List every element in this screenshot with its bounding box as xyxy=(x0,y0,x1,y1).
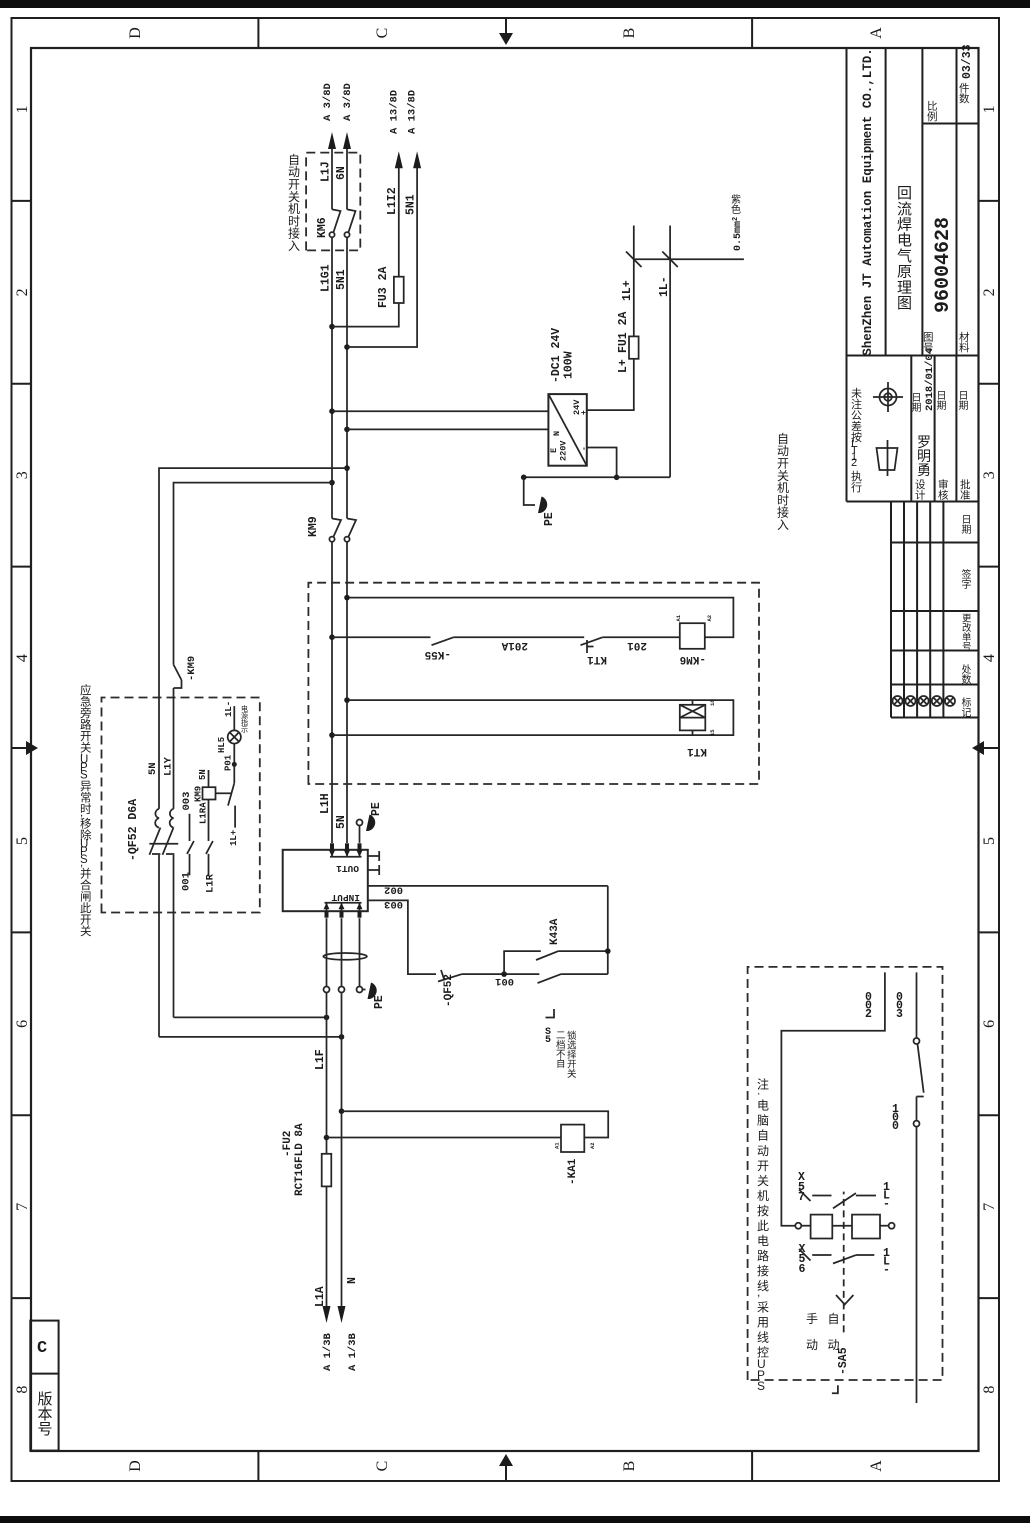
svg-text:L1RA: L1RA xyxy=(199,802,209,824)
wire 003 from UPS xyxy=(368,900,436,974)
UPS unused pin stubs bottom xyxy=(368,851,379,875)
wire KM6 rung upper xyxy=(332,636,431,638)
svg-text:SPU控线用采,线接路电此按机关开动自脑电:注: SPU控线用采,线接路电此按机关开动自脑电:注 xyxy=(757,1076,772,1393)
connector body X57 xyxy=(811,1215,833,1239)
svg-text:号单改更: 号单改更 xyxy=(962,613,972,653)
wire tap L1 to FU3 xyxy=(332,303,399,327)
contactor contact KM6 pole N xyxy=(344,232,349,237)
wire 6N out xyxy=(346,144,348,209)
svg-text:1: 1 xyxy=(14,105,31,113)
lamp branch contact blade xyxy=(228,783,235,828)
revision box 版本号 C xyxy=(30,1321,58,1451)
dashed box emergency bypass QF52 xyxy=(102,698,260,913)
relay contact -K55 xyxy=(432,637,454,645)
svg-text:-DC1 24V: -DC1 24V xyxy=(550,328,563,383)
svg-text:入接时机关开动自: 入接时机关开动自 xyxy=(288,153,300,253)
svg-text:字签: 字签 xyxy=(962,568,972,591)
svg-text:6: 6 xyxy=(981,1020,998,1028)
selector switch SA5 mechanical dashed link xyxy=(843,1192,845,1333)
svg-text:色紫: 色紫 xyxy=(731,194,741,216)
junction N drop xyxy=(339,1034,345,1040)
junction rail N KT1 rung xyxy=(344,697,350,703)
svg-text:D: D xyxy=(127,1460,144,1472)
centering mark left xyxy=(505,1460,507,1481)
terminal circle PE out xyxy=(357,820,363,826)
junction PE tap xyxy=(521,475,527,481)
svg-text:100W: 100W xyxy=(563,351,576,379)
svg-text:P01: P01 xyxy=(224,754,234,771)
fuse FU1 xyxy=(629,336,639,358)
title block middle section rows xyxy=(911,356,956,502)
svg-text:RCT16FLD 8A: RCT16FLD 8A xyxy=(294,1123,306,1196)
wire PE branch from DC1 xyxy=(524,477,535,505)
svg-text:ShenZhen JT Automation Equipme: ShenZhen JT Automation Equipment CO.,LTD… xyxy=(861,48,875,356)
svg-text:关开此闸合并,SPU除移,时常异SPU,关开路旁急应: 关开此闸合并,SPU除移,时常异SPU,关开路旁急应 xyxy=(80,683,92,938)
svg-text:L1R: L1R xyxy=(205,873,217,893)
svg-text:-QF52: -QF52 xyxy=(443,974,455,1007)
svg-text:7: 7 xyxy=(14,1203,31,1211)
junction on rail L1 for DC1 xyxy=(329,408,335,414)
svg-text:料材: 料材 xyxy=(959,331,970,355)
contactor contact -KM9 in bypass xyxy=(174,665,182,698)
svg-text:KM9: KM9 xyxy=(194,786,204,802)
junction KA1 tap N xyxy=(339,1108,345,1114)
svg-text:A2: A2 xyxy=(706,615,713,622)
junction lamp branch xyxy=(232,762,237,767)
aux line L1R with KM9 coil square xyxy=(206,770,213,875)
contactor contact KM6 pole L xyxy=(329,232,334,237)
wire rail L1 after KM9 xyxy=(331,237,333,518)
wire KA1 coil top xyxy=(327,1137,562,1139)
svg-text:1L-: 1L- xyxy=(224,701,234,717)
breaker QF52 mechanical tie xyxy=(149,843,178,845)
arrow to A 3/8D line N xyxy=(343,132,351,149)
wire L1F feed xyxy=(326,993,328,1154)
svg-text:5: 5 xyxy=(14,837,31,845)
relay contact K43A xyxy=(536,951,558,960)
svg-text:B: B xyxy=(621,1461,638,1472)
coil square KM9 xyxy=(203,787,216,799)
aux contact -QF52 near S5 xyxy=(438,970,462,982)
junction on rail L1 for FU3 branch xyxy=(329,324,335,330)
third angle projection symbol cone xyxy=(877,440,898,476)
svg-text:001: 001 xyxy=(892,1103,900,1133)
wire UPS PE out xyxy=(359,826,361,843)
UPS INPUT bracket and arrows xyxy=(325,903,362,912)
svg-text:E: E xyxy=(549,448,559,453)
svg-text:C: C xyxy=(374,1461,391,1472)
terminal circle connector top xyxy=(795,1223,801,1229)
svg-text:A: A xyxy=(868,27,885,39)
timer coil KT1 xyxy=(680,705,706,731)
svg-text:PE: PE xyxy=(370,802,383,816)
wire rail N after KM9 xyxy=(346,237,348,518)
svg-text:例比: 例比 xyxy=(927,100,938,124)
svg-text:A 13/8D: A 13/8D xyxy=(389,90,401,134)
earth symbol PE at DC1 xyxy=(538,497,547,514)
coil -KM6 xyxy=(680,623,705,649)
svg-text:N: N xyxy=(552,431,562,436)
earth symbol PE at UPS out xyxy=(366,815,375,832)
svg-text:L1H: L1H xyxy=(319,793,332,814)
svg-text:号本版: 号本版 xyxy=(38,1391,53,1438)
coil KT1 stubs xyxy=(692,700,694,735)
wire UPS input N xyxy=(341,918,343,986)
slash mark on 1L- xyxy=(662,252,678,268)
dashed box KM6 contacts 自动开关机时接入 xyxy=(306,153,360,251)
junction KA1 tap L xyxy=(324,1135,330,1141)
svg-text:2: 2 xyxy=(14,288,31,296)
svg-text:L1Y: L1Y xyxy=(163,756,175,776)
slash mark on 1L+ xyxy=(626,252,642,268)
svg-text:KT1: KT1 xyxy=(587,653,607,665)
svg-text:5N1: 5N1 xyxy=(335,269,348,290)
switch contact S5 xyxy=(538,974,608,983)
wire 001 left xyxy=(916,1097,918,1121)
wire bypass L riser xyxy=(174,483,333,665)
junction on rail N for 5N1 branch xyxy=(344,344,350,350)
wire 002 from UPS xyxy=(368,885,608,887)
svg-text:3: 3 xyxy=(981,471,998,479)
svg-text:002: 002 xyxy=(384,884,403,896)
junction tie xyxy=(605,948,611,954)
svg-text:15: 15 xyxy=(709,729,716,736)
svg-text:L1F: L1F xyxy=(314,1049,327,1070)
revision mark symbols xyxy=(893,696,956,706)
svg-text:1L+: 1L+ xyxy=(621,280,634,301)
svg-text:自不档二: 自不档二 xyxy=(556,1030,566,1070)
scan artifact: black bar bottom xyxy=(0,1516,1030,1523)
wire FU3 to arrow L1I2 xyxy=(398,163,400,277)
arrow to A 3/8D line L xyxy=(328,132,336,149)
svg-text:数处: 数处 xyxy=(962,664,972,686)
svg-text:记标: 记标 xyxy=(962,697,972,719)
terminal circle 001 xyxy=(914,1121,920,1127)
centering mark top xyxy=(12,747,33,749)
svg-text:INPUT: INPUT xyxy=(331,892,360,903)
svg-text:5N: 5N xyxy=(198,769,208,780)
svg-text:计设: 计设 xyxy=(915,479,926,502)
svg-text:勇明罗: 勇明罗 xyxy=(917,434,931,478)
svg-text:-L1: -L1 xyxy=(883,1181,891,1211)
svg-text:示指源电: 示指源电 xyxy=(241,704,248,734)
mechanical link square to lamp contact xyxy=(216,792,232,794)
svg-text:001: 001 xyxy=(181,872,193,891)
terminal circle connector bottom xyxy=(889,1223,895,1229)
wire K55 to KT1 contact xyxy=(454,636,584,638)
wire K43A branch top xyxy=(504,951,541,974)
zone column numbers top xyxy=(14,105,31,1393)
revision strip grid xyxy=(891,502,979,718)
junction rail L1 to KM6 rung xyxy=(329,634,335,640)
junction rail L1 to KT1 rung xyxy=(329,732,335,738)
svg-text:A1: A1 xyxy=(675,614,682,621)
UPS OUT bracket and arrows xyxy=(330,850,362,857)
svg-text:-QF52 D6A: -QF52 D6A xyxy=(127,799,140,861)
breaker QF52 pole L thermal hump xyxy=(170,809,174,828)
svg-text:期日: 期日 xyxy=(959,391,969,412)
wire bypass N riser xyxy=(159,468,347,809)
svg-text:D: D xyxy=(127,27,144,39)
breaker QF52 pole N blade xyxy=(149,828,160,913)
svg-text:5N: 5N xyxy=(147,762,159,775)
centering mark right xyxy=(505,18,507,39)
power supply DC1 box xyxy=(548,394,586,466)
wire DC1 minus output xyxy=(587,448,617,478)
wire 001 vertical xyxy=(462,973,539,975)
relay coil -KA1 xyxy=(561,1125,584,1152)
svg-text:PE: PE xyxy=(543,512,556,526)
wire rail N main xyxy=(346,542,348,843)
wire L1J out xyxy=(331,144,333,209)
breaker QF52 pole L blade xyxy=(163,828,175,913)
svg-text:入接时机关开动自: 入接时机关开动自 xyxy=(777,432,789,532)
terminal circle input PE xyxy=(357,987,363,993)
svg-text:75X: 75X xyxy=(798,1171,808,1204)
title block right section rows xyxy=(886,49,979,356)
connector pin column X57 xyxy=(799,1190,876,1209)
svg-text:OUT1: OUT1 xyxy=(336,863,359,874)
arrow to A 13/8D line L1I2 xyxy=(395,151,403,168)
dashed box computer auto power wiring xyxy=(748,967,943,1380)
arrow A 1/3B line N xyxy=(338,1306,346,1323)
svg-text:8: 8 xyxy=(981,1386,998,1394)
svg-text:003: 003 xyxy=(181,792,193,811)
junction on rail N for DC1 xyxy=(344,427,350,433)
svg-text:2: 2 xyxy=(981,288,998,296)
svg-text:KM9: KM9 xyxy=(307,516,320,537)
svg-text:L1J: L1J xyxy=(320,161,333,182)
svg-text:4: 4 xyxy=(14,654,31,662)
wire L1 to DC1 input L xyxy=(332,410,548,412)
terminal circle input L xyxy=(324,987,330,993)
cable marker oval xyxy=(323,953,367,960)
svg-text:KT1: KT1 xyxy=(687,745,707,757)
svg-text:3: 3 xyxy=(14,471,31,479)
contact blade 003-001 xyxy=(917,1044,924,1097)
wire KM6 coil to return xyxy=(347,598,733,638)
wire 002 entry xyxy=(781,972,885,1225)
svg-text:期日: 期日 xyxy=(962,515,972,536)
svg-text:A 13/8D: A 13/8D xyxy=(407,90,419,134)
junction L drop xyxy=(324,1015,330,1021)
svg-text:数件: 数件 xyxy=(959,83,970,106)
terminal circle input N xyxy=(339,987,345,993)
cable group line 0.5mm xyxy=(634,258,744,260)
svg-text:-KA1: -KA1 xyxy=(567,1158,579,1185)
svg-text:220V: 220V xyxy=(559,440,569,461)
svg-text:A1: A1 xyxy=(554,1142,561,1149)
junction K43A branch xyxy=(501,971,507,977)
svg-text:65X: 65X xyxy=(799,1243,809,1276)
wire minus riser to PE tap xyxy=(524,476,670,478)
title block outline xyxy=(847,49,979,502)
svg-text:5N1: 5N1 xyxy=(405,194,418,215)
scan artifact: black bar top xyxy=(0,0,1030,8)
svg-text:HL5: HL5 xyxy=(217,737,227,753)
svg-text:1L-: 1L- xyxy=(658,276,671,297)
svg-text:18: 18 xyxy=(709,699,716,706)
svg-text:C: C xyxy=(37,1339,47,1358)
tie wire 002 bottom xyxy=(607,886,609,974)
svg-text:A 3/8D: A 3/8D xyxy=(322,83,334,121)
junction on rail N for bypass xyxy=(344,465,350,471)
svg-text:L1G1: L1G1 xyxy=(320,264,333,292)
zone tick marks left/right xyxy=(258,18,752,1481)
centering mark bottom xyxy=(978,747,999,749)
wire N feed xyxy=(341,993,343,1319)
svg-text:行执 21TI 按差公注未: 行执 21TI 按差公注未 xyxy=(851,387,862,494)
svg-text:B: B xyxy=(621,28,638,39)
svg-text:准批: 准批 xyxy=(960,478,971,502)
svg-text:-K55: -K55 xyxy=(424,648,451,660)
wire 003 entry xyxy=(916,972,918,1038)
contactor contact KM9 pole L xyxy=(329,537,334,542)
zone row letters left xyxy=(127,1460,885,1472)
fuse FU2 xyxy=(322,1154,332,1187)
junction rail N return KM6 rung xyxy=(344,595,350,601)
wire FU1 to 1L+ xyxy=(633,226,635,337)
svg-text:003: 003 xyxy=(384,898,403,910)
dashed box auto power-on circuit xyxy=(308,583,759,784)
wire lamp to contact xyxy=(233,744,235,784)
svg-text:KM6: KM6 xyxy=(316,217,329,238)
svg-text:1L+: 1L+ xyxy=(229,830,239,846)
wire K43A lower xyxy=(558,950,607,952)
breaker QF52 pole N thermal hump xyxy=(155,809,159,828)
svg-text:5: 5 xyxy=(981,837,998,845)
wire below connector X56 xyxy=(880,1225,889,1227)
selector handle mark xyxy=(832,1385,838,1393)
indicator lamp HL5 xyxy=(228,730,241,743)
svg-text:03/33: 03/33 xyxy=(961,44,974,79)
aux contact QF52 001/003 xyxy=(187,814,194,876)
svg-text:8: 8 xyxy=(14,1386,31,1394)
svg-text:期日: 期日 xyxy=(937,391,947,412)
svg-text:A2: A2 xyxy=(589,1142,596,1149)
wire 001 exit xyxy=(916,1127,918,1403)
svg-text:C: C xyxy=(374,28,391,39)
wire tap N to 5N1 xyxy=(347,163,417,347)
svg-text:0.5mm2: 0.5mm2 xyxy=(732,217,744,251)
zone column numbers bottom xyxy=(981,105,998,1393)
svg-text:300: 300 xyxy=(896,991,904,1021)
selector operator arrow xyxy=(836,1295,853,1305)
svg-text:201A: 201A xyxy=(501,639,528,651)
power supply DC1 diagonal xyxy=(548,394,586,466)
earth symbol PE at UPS input xyxy=(363,989,366,991)
svg-text:6N: 6N xyxy=(335,166,348,180)
wire UPS input PE xyxy=(359,918,361,986)
wire 1L- xyxy=(669,226,671,478)
wire KT1 contact to KM6 coil xyxy=(603,636,680,638)
svg-text:-FU2: -FU2 xyxy=(282,1131,294,1157)
svg-text:L1A: L1A xyxy=(314,1286,327,1307)
wire FU2 to arrow L1A xyxy=(326,1186,328,1318)
svg-text:A 1/3B: A 1/3B xyxy=(347,1332,359,1371)
timer contact KT1 xyxy=(581,637,603,653)
wire lamp branch 1L- xyxy=(233,706,235,730)
svg-text:7: 7 xyxy=(981,1203,998,1211)
latch hook S5 xyxy=(546,1009,555,1018)
wire N to DC1 input N xyxy=(347,428,548,430)
wire bypass L drop to UPS input xyxy=(174,913,327,1018)
svg-text:FU3 2A: FU3 2A xyxy=(377,266,390,308)
wire into connector X57 xyxy=(801,1225,810,1227)
svg-text:N: N xyxy=(346,1277,359,1284)
wire UPS input L xyxy=(326,918,328,986)
svg-text:4: 4 xyxy=(981,654,998,662)
svg-text:期日: 期日 xyxy=(912,393,922,414)
svg-text:K43A: K43A xyxy=(549,918,561,945)
arrow to A 13/8D line 5N1 xyxy=(413,151,421,168)
wire DC1 +24V output xyxy=(587,359,634,410)
svg-text:6: 6 xyxy=(14,1020,31,1028)
wire rail L1 main xyxy=(331,542,333,843)
UPS OUT pin stubs xyxy=(330,843,334,850)
arrow A 1/3B line L1A xyxy=(323,1306,331,1323)
svg-text:-L1: -L1 xyxy=(883,1247,891,1277)
svg-text:PE: PE xyxy=(373,995,386,1009)
UPS INPUT pin stubs xyxy=(325,911,329,918)
svg-text:A 3/8D: A 3/8D xyxy=(342,83,354,121)
contactor contact KM9 pole N xyxy=(344,537,349,542)
breaker QF52 wire in L1Y xyxy=(173,698,175,809)
svg-text:关开择选锁: 关开择选锁 xyxy=(567,1030,577,1080)
connector pin column X56 xyxy=(799,1249,874,1264)
junction on minus wire xyxy=(614,475,620,481)
svg-text:2018/01/04: 2018/01/04 xyxy=(924,348,936,411)
terminal circle 003 xyxy=(914,1038,920,1044)
svg-text:核审: 核审 xyxy=(938,478,949,502)
svg-text:L1I2: L1I2 xyxy=(386,187,399,215)
UPS box xyxy=(283,850,368,911)
zone tick marks top/bottom xyxy=(12,201,1000,1298)
svg-text:L+: L+ xyxy=(617,359,630,373)
wire KA1 coil return xyxy=(342,1111,609,1137)
svg-text:FU1 2A: FU1 2A xyxy=(617,311,630,353)
zone row letters right xyxy=(127,27,885,39)
fuse FU3 xyxy=(394,277,404,303)
svg-text:96004628: 96004628 xyxy=(932,217,955,313)
svg-text:-KM9: -KM9 xyxy=(186,656,198,681)
svg-text:5N: 5N xyxy=(335,815,348,829)
svg-text:201: 201 xyxy=(627,639,647,651)
svg-text:A 1/3B: A 1/3B xyxy=(322,1332,334,1371)
svg-text:图理原气电焊流回: 图理原气电焊流回 xyxy=(897,185,913,312)
junction on rail L1 for bypass xyxy=(329,480,335,486)
svg-text:200: 200 xyxy=(865,991,873,1021)
svg-text:1: 1 xyxy=(981,105,998,113)
svg-text:-KM6: -KM6 xyxy=(680,653,706,665)
third angle projection symbol circle xyxy=(873,382,903,412)
svg-text:A: A xyxy=(868,1460,885,1472)
wire bypass N drop to UPS input xyxy=(159,913,342,1037)
connector body X56 xyxy=(852,1215,880,1239)
wire between connectors xyxy=(832,1225,852,1227)
svg-text:5S: 5S xyxy=(545,1027,553,1046)
wire KT1 rung left xyxy=(332,700,733,735)
